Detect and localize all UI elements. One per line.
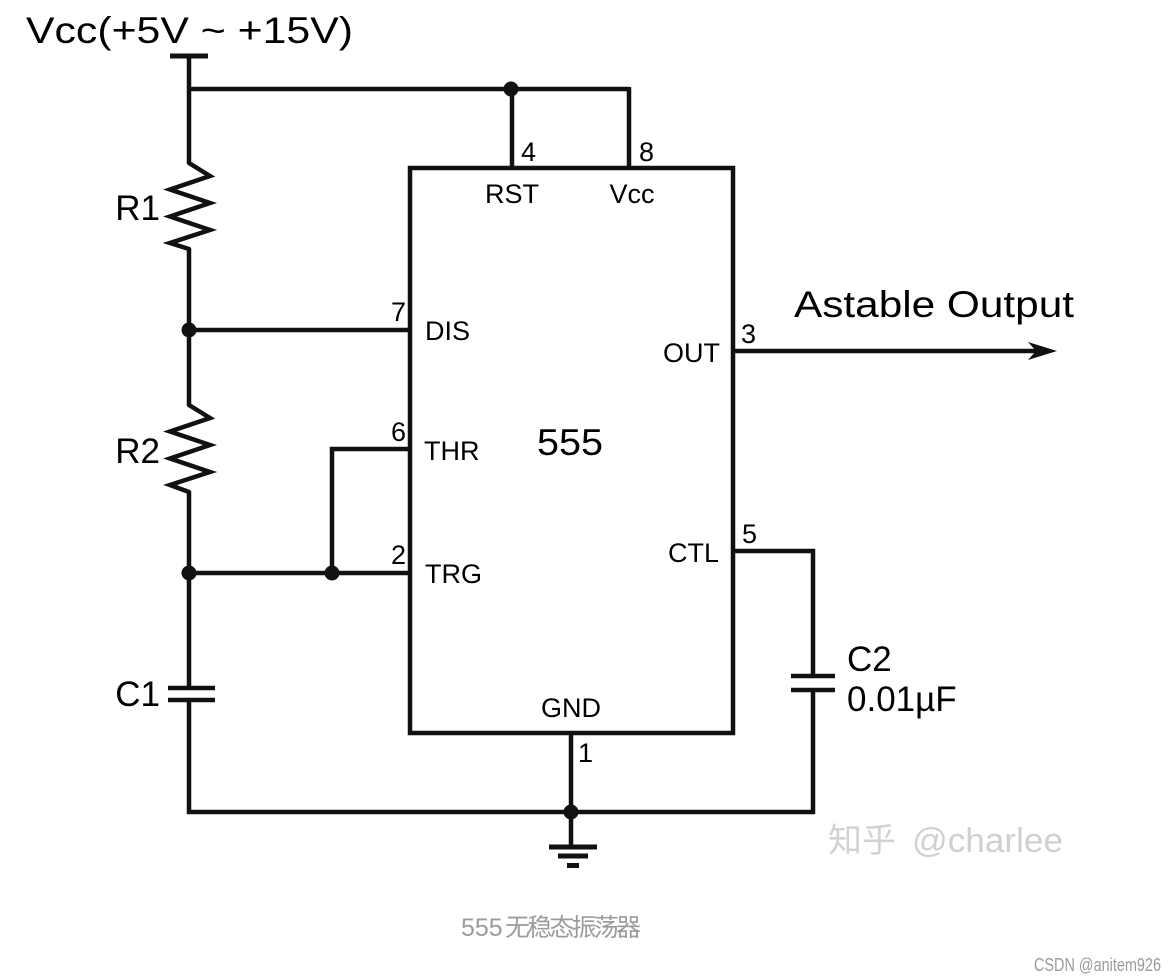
resistor R1 xyxy=(170,163,210,249)
pin Vcc label xyxy=(609,179,654,209)
capacitor C2 xyxy=(791,676,835,690)
power supply Vcc terminal bar xyxy=(170,54,208,59)
wire R1 bottom to node DIS junction to R2 top xyxy=(187,249,192,405)
svg-text:0.01µF: 0.01µF xyxy=(847,680,957,719)
pin 3 number xyxy=(741,319,756,349)
label R1 xyxy=(115,189,160,228)
wire THR stub xyxy=(332,449,410,573)
node junction dot TRG rail left xyxy=(182,566,197,581)
wire pin 4 drop xyxy=(510,89,515,168)
svg-text:6: 6 xyxy=(391,417,406,447)
pin 5 number xyxy=(742,519,757,549)
label Astable Output xyxy=(794,284,1075,325)
svg-text:OUT: OUT xyxy=(663,338,720,368)
svg-text:GND: GND xyxy=(541,693,601,723)
svg-text:3: 3 xyxy=(741,319,756,349)
capacitor C1 xyxy=(168,688,215,700)
svg-text:7: 7 xyxy=(391,297,406,327)
pin 4 number xyxy=(521,137,536,167)
wire top rail Vcc to pin 8 xyxy=(187,87,629,92)
watermark CSDN @anitem926 xyxy=(1034,955,1161,975)
svg-text:5: 5 xyxy=(742,519,757,549)
wire R2 bottom to node TRG junction to C1 top xyxy=(187,492,192,688)
node junction dot bottom rail GND xyxy=(564,805,579,820)
pin OUT label xyxy=(663,338,720,368)
wire pin 8 drop xyxy=(627,87,632,168)
wire bottom rail xyxy=(187,810,815,815)
svg-text:8: 8 xyxy=(639,137,654,167)
pin DIS label xyxy=(425,316,470,346)
watermark zhihu @charlee xyxy=(829,822,1063,860)
resistor R2 xyxy=(170,405,210,492)
wire OUT with arrowhead xyxy=(733,342,1057,360)
wire TRG rail xyxy=(189,571,410,576)
wire C1 bottom to bottom rail xyxy=(187,700,192,814)
svg-text:Vcc(+5V ~ +15V): Vcc(+5V ~ +15V) xyxy=(26,10,353,51)
node junction dot DIS rail xyxy=(182,323,197,338)
svg-text:Astable Output: Astable Output xyxy=(794,284,1075,325)
wire C2 bottom to bottom rail xyxy=(811,690,816,814)
label C2 value 0.01uF xyxy=(847,680,957,719)
node junction dot TRG rail mid xyxy=(325,566,340,581)
pin 7 number xyxy=(391,297,406,327)
pin TRG label xyxy=(425,559,482,589)
svg-text:1: 1 xyxy=(578,738,593,768)
ground symbol xyxy=(549,812,597,866)
IC U1 555 timer body xyxy=(410,168,733,733)
pin 1 number xyxy=(578,738,593,768)
pin CTL label xyxy=(668,538,719,568)
pin THR label xyxy=(424,436,480,466)
svg-text:@charlee: @charlee xyxy=(912,822,1063,860)
caption 555 astable oscillator (Chinese) xyxy=(461,914,640,942)
svg-text:TRG: TRG xyxy=(425,559,482,589)
wire CTL to C2 xyxy=(733,551,813,676)
svg-text:RST: RST xyxy=(485,179,539,209)
pin 6 number xyxy=(391,417,406,447)
svg-text:C2: C2 xyxy=(847,640,892,679)
svg-text:R1: R1 xyxy=(115,189,160,228)
svg-text:Vcc: Vcc xyxy=(609,179,654,209)
pin GND label xyxy=(541,693,601,723)
node junction dot top rail pin 4 xyxy=(504,82,519,97)
wire Vcc bar to R1 top xyxy=(187,56,192,163)
pin 2 number xyxy=(391,540,406,570)
wire pin 1 GND drop xyxy=(569,733,574,812)
label R2 xyxy=(115,432,160,471)
pin RST label xyxy=(485,179,539,209)
label C1 xyxy=(115,675,160,714)
svg-text:C1: C1 xyxy=(115,675,160,714)
svg-text:555: 555 xyxy=(461,914,503,942)
svg-text:R2: R2 xyxy=(115,432,160,471)
svg-text:555: 555 xyxy=(537,422,603,463)
svg-text:2: 2 xyxy=(391,540,406,570)
svg-text:4: 4 xyxy=(521,137,536,167)
label C2 xyxy=(847,640,892,679)
svg-text:CSDN @anitem926: CSDN @anitem926 xyxy=(1034,955,1161,975)
label 555 xyxy=(537,422,603,463)
svg-text:CTL: CTL xyxy=(668,538,719,568)
power supply Vcc label xyxy=(26,10,353,51)
wire DIS rail xyxy=(189,328,410,333)
svg-text:DIS: DIS xyxy=(425,316,470,346)
svg-text:THR: THR xyxy=(424,436,480,466)
pin 8 number xyxy=(639,137,654,167)
